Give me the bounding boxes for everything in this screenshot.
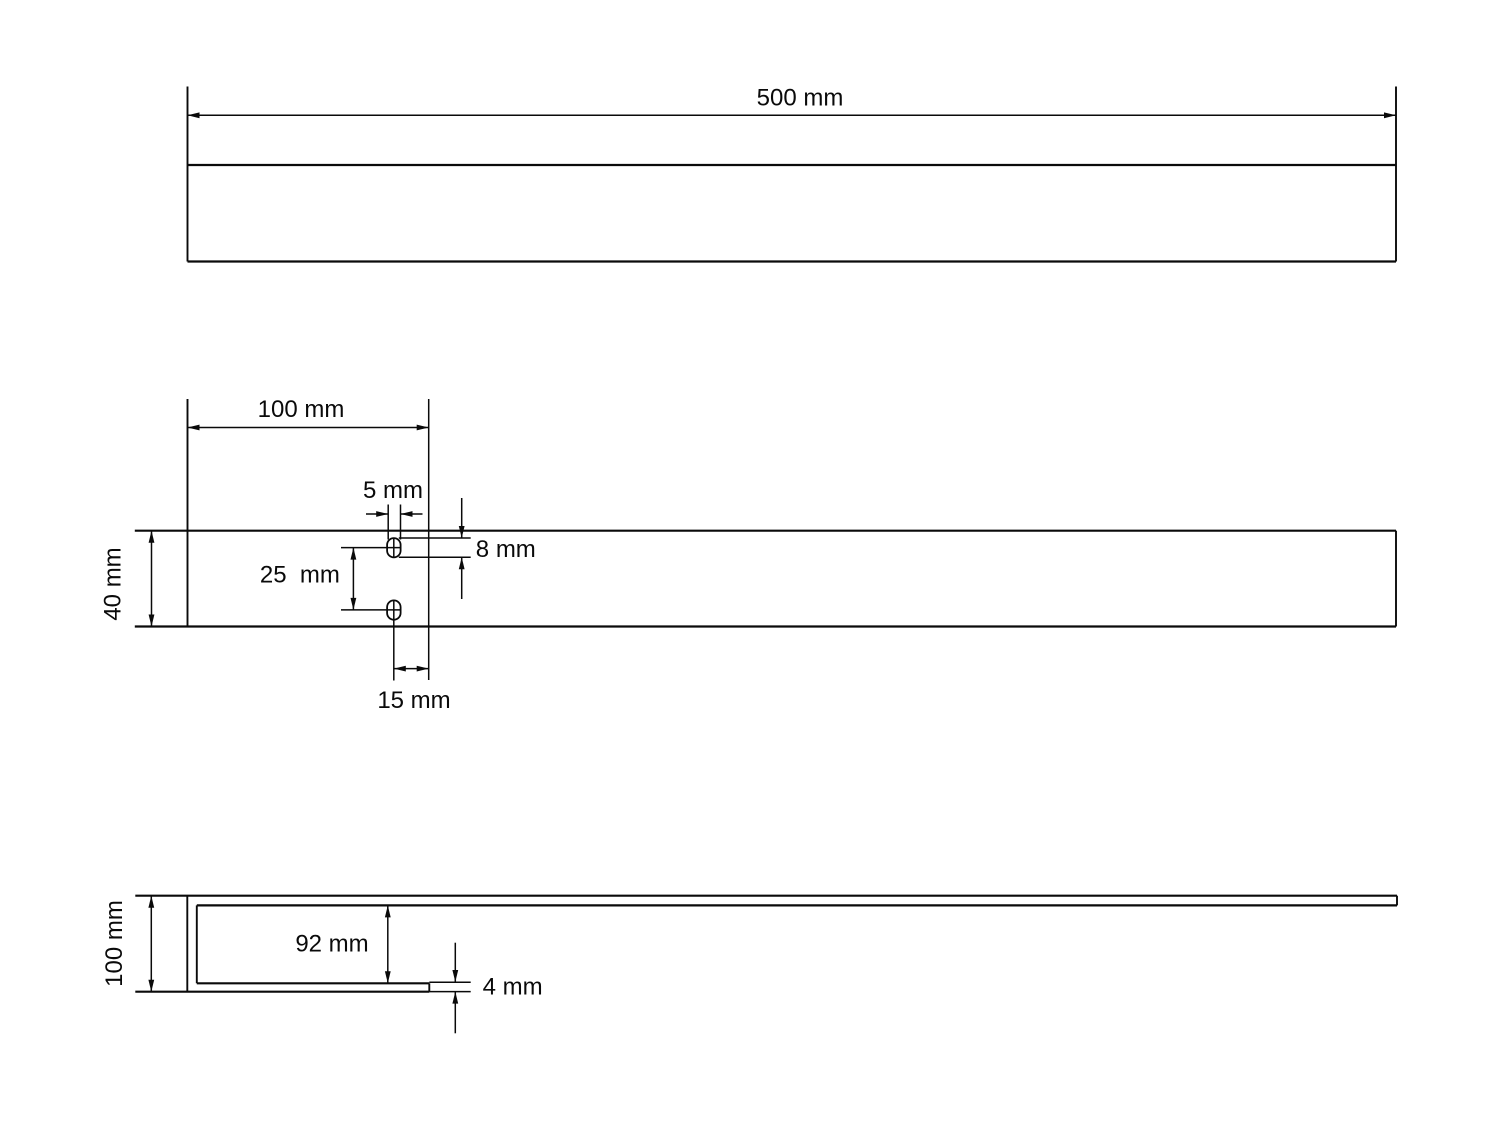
svg-text:100 mm: 100 mm bbox=[101, 900, 128, 987]
5mm right arrowhead pointing left bbox=[401, 511, 413, 517]
5mm left arrow stem bbox=[366, 513, 388, 515]
100mm arrowhead up bbox=[148, 896, 154, 908]
strip top edge with 40mm extension bbox=[135, 530, 1396, 532]
4mm top extension line bbox=[429, 981, 470, 983]
web inner edge bbox=[196, 905, 198, 983]
svg-text:40 mm: 40 mm bbox=[100, 547, 127, 620]
25mm top extension line from slot1 center bbox=[341, 547, 400, 549]
8mm arrowhead pointing down bbox=[459, 526, 465, 538]
8mm upper arrow stem bbox=[461, 498, 463, 538]
slot 2 lower oval bbox=[387, 600, 401, 619]
top view left edge / extension line bbox=[187, 87, 189, 262]
svg-text:8 mm: 8 mm bbox=[476, 536, 536, 563]
svg-text:15 mm: 15 mm bbox=[377, 687, 450, 714]
8mm arrowhead pointing up bbox=[459, 557, 465, 569]
5mm right arrow stem bbox=[401, 513, 423, 515]
strip right edge bbox=[1395, 531, 1397, 627]
slot 2 vertical centerline extended to 15mm dimension bbox=[393, 601, 395, 681]
15mm arrowhead pointing left bbox=[394, 666, 406, 672]
15mm dimension line bbox=[394, 668, 429, 670]
slot 1 vertical centerline bbox=[393, 539, 395, 558]
92mm arrowhead up bbox=[385, 905, 391, 917]
4mm bottom extension line bbox=[429, 991, 470, 993]
bottom flange right end bbox=[428, 983, 430, 991]
strip bottom edge with 40mm extension bbox=[135, 625, 1396, 627]
8mm lower arrow stem bbox=[461, 557, 463, 599]
top flange inner line bbox=[197, 904, 1397, 906]
arrowhead right 500 mm bbox=[1384, 112, 1396, 118]
92mm dimension line bbox=[387, 905, 389, 983]
top view right edge / extension line bbox=[1395, 87, 1397, 262]
25mm dimension line bbox=[352, 548, 354, 610]
25mm arrowhead pointing up bbox=[351, 548, 357, 560]
100mm dimension line bottom view bbox=[150, 896, 152, 992]
arrowhead down 40 mm bbox=[149, 615, 155, 627]
svg-text:25 mm: 25 mm bbox=[260, 562, 340, 589]
svg-text:4 mm: 4 mm bbox=[483, 974, 543, 1001]
web outer left edge bbox=[186, 896, 188, 992]
4mm lower arrow stem bbox=[454, 992, 456, 1034]
dimension line 500 mm bbox=[188, 114, 1397, 116]
top flange right end bbox=[1396, 896, 1398, 906]
arrowhead right 100 mm bbox=[417, 425, 429, 431]
top view bottom edge bbox=[188, 260, 1397, 262]
top view top edge bbox=[188, 164, 1397, 166]
svg-text:500 mm: 500 mm bbox=[757, 85, 844, 112]
svg-text:92 mm: 92 mm bbox=[295, 931, 368, 958]
arrowhead left 100 mm bbox=[188, 425, 200, 431]
slot 1 upper oval bbox=[387, 538, 401, 557]
5mm left arrowhead pointing right bbox=[376, 511, 388, 517]
arrowhead left 500 mm bbox=[188, 112, 200, 118]
5mm left extension line bbox=[387, 505, 389, 540]
25mm arrowhead pointing down bbox=[351, 598, 357, 610]
25mm bottom extension line from slot2 center bbox=[341, 609, 400, 611]
bottom flange inner edge bbox=[197, 982, 429, 984]
40mm dimension line bbox=[151, 531, 153, 627]
svg-text:5 mm: 5 mm bbox=[363, 477, 423, 504]
strip left edge / 100mm left extension line bbox=[187, 399, 189, 627]
svg-text:100 mm: 100 mm bbox=[258, 396, 345, 423]
100mm arrowhead down bbox=[148, 980, 154, 992]
4mm arrowhead pointing up bbox=[452, 992, 458, 1004]
5mm right extension line bbox=[400, 505, 402, 540]
profile top edge with 100mm extension bbox=[135, 895, 1397, 897]
arrowhead up 40 mm bbox=[149, 531, 155, 543]
8mm bottom extension line bbox=[399, 556, 471, 558]
100mm right extension line bbox=[428, 399, 430, 680]
bottom flange outer edge with 100mm extension bbox=[135, 991, 429, 993]
4mm upper arrow stem bbox=[454, 943, 456, 982]
4mm arrowhead pointing down bbox=[452, 970, 458, 982]
15mm arrowhead pointing right bbox=[417, 666, 429, 672]
dimension line 100 mm bbox=[188, 427, 429, 429]
8mm top extension line bbox=[399, 537, 471, 539]
92mm arrowhead down bbox=[385, 971, 391, 983]
